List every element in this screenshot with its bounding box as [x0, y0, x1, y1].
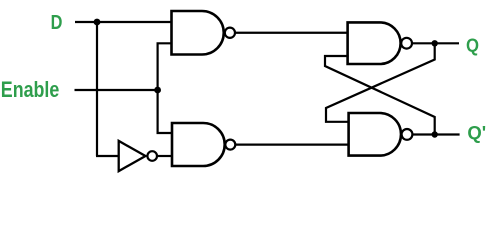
nand gate U5 — [349, 113, 413, 156]
nand gate U4 — [348, 22, 412, 64]
wire Q' feedback to U4 input — [325, 56, 435, 135]
wire Enable input — [75, 89, 158, 91]
wire U4 output to Q — [412, 42, 459, 44]
wire U5 output to Q' — [412, 133, 459, 135]
wire D vertical drop — [96, 22, 98, 156]
nand gate U2 — [172, 11, 235, 55]
wire U2 output to U4 — [235, 32, 349, 34]
wire D to inverter — [96, 155, 119, 157]
node D junction — [94, 19, 101, 26]
wire Enable riser up to U2 — [158, 43, 172, 90]
svg-text:Enable: Enable — [1, 77, 60, 102]
node Q' junction — [432, 131, 438, 137]
svg-text:D: D — [51, 11, 63, 34]
wire Q feedback to U5 input — [326, 43, 435, 122]
wire U1 output to U3 — [157, 155, 173, 157]
nand gate U3 — [172, 123, 235, 166]
wire U3 output to U5 — [235, 144, 349, 146]
wire D input — [75, 21, 172, 23]
inverter U1 — [119, 141, 157, 171]
node Q junction — [432, 40, 438, 46]
svg-text:Q': Q' — [467, 122, 486, 143]
node Enable junction — [154, 87, 161, 94]
wire Enable drop down to U3 — [158, 90, 173, 133]
svg-text:Q: Q — [466, 35, 479, 56]
